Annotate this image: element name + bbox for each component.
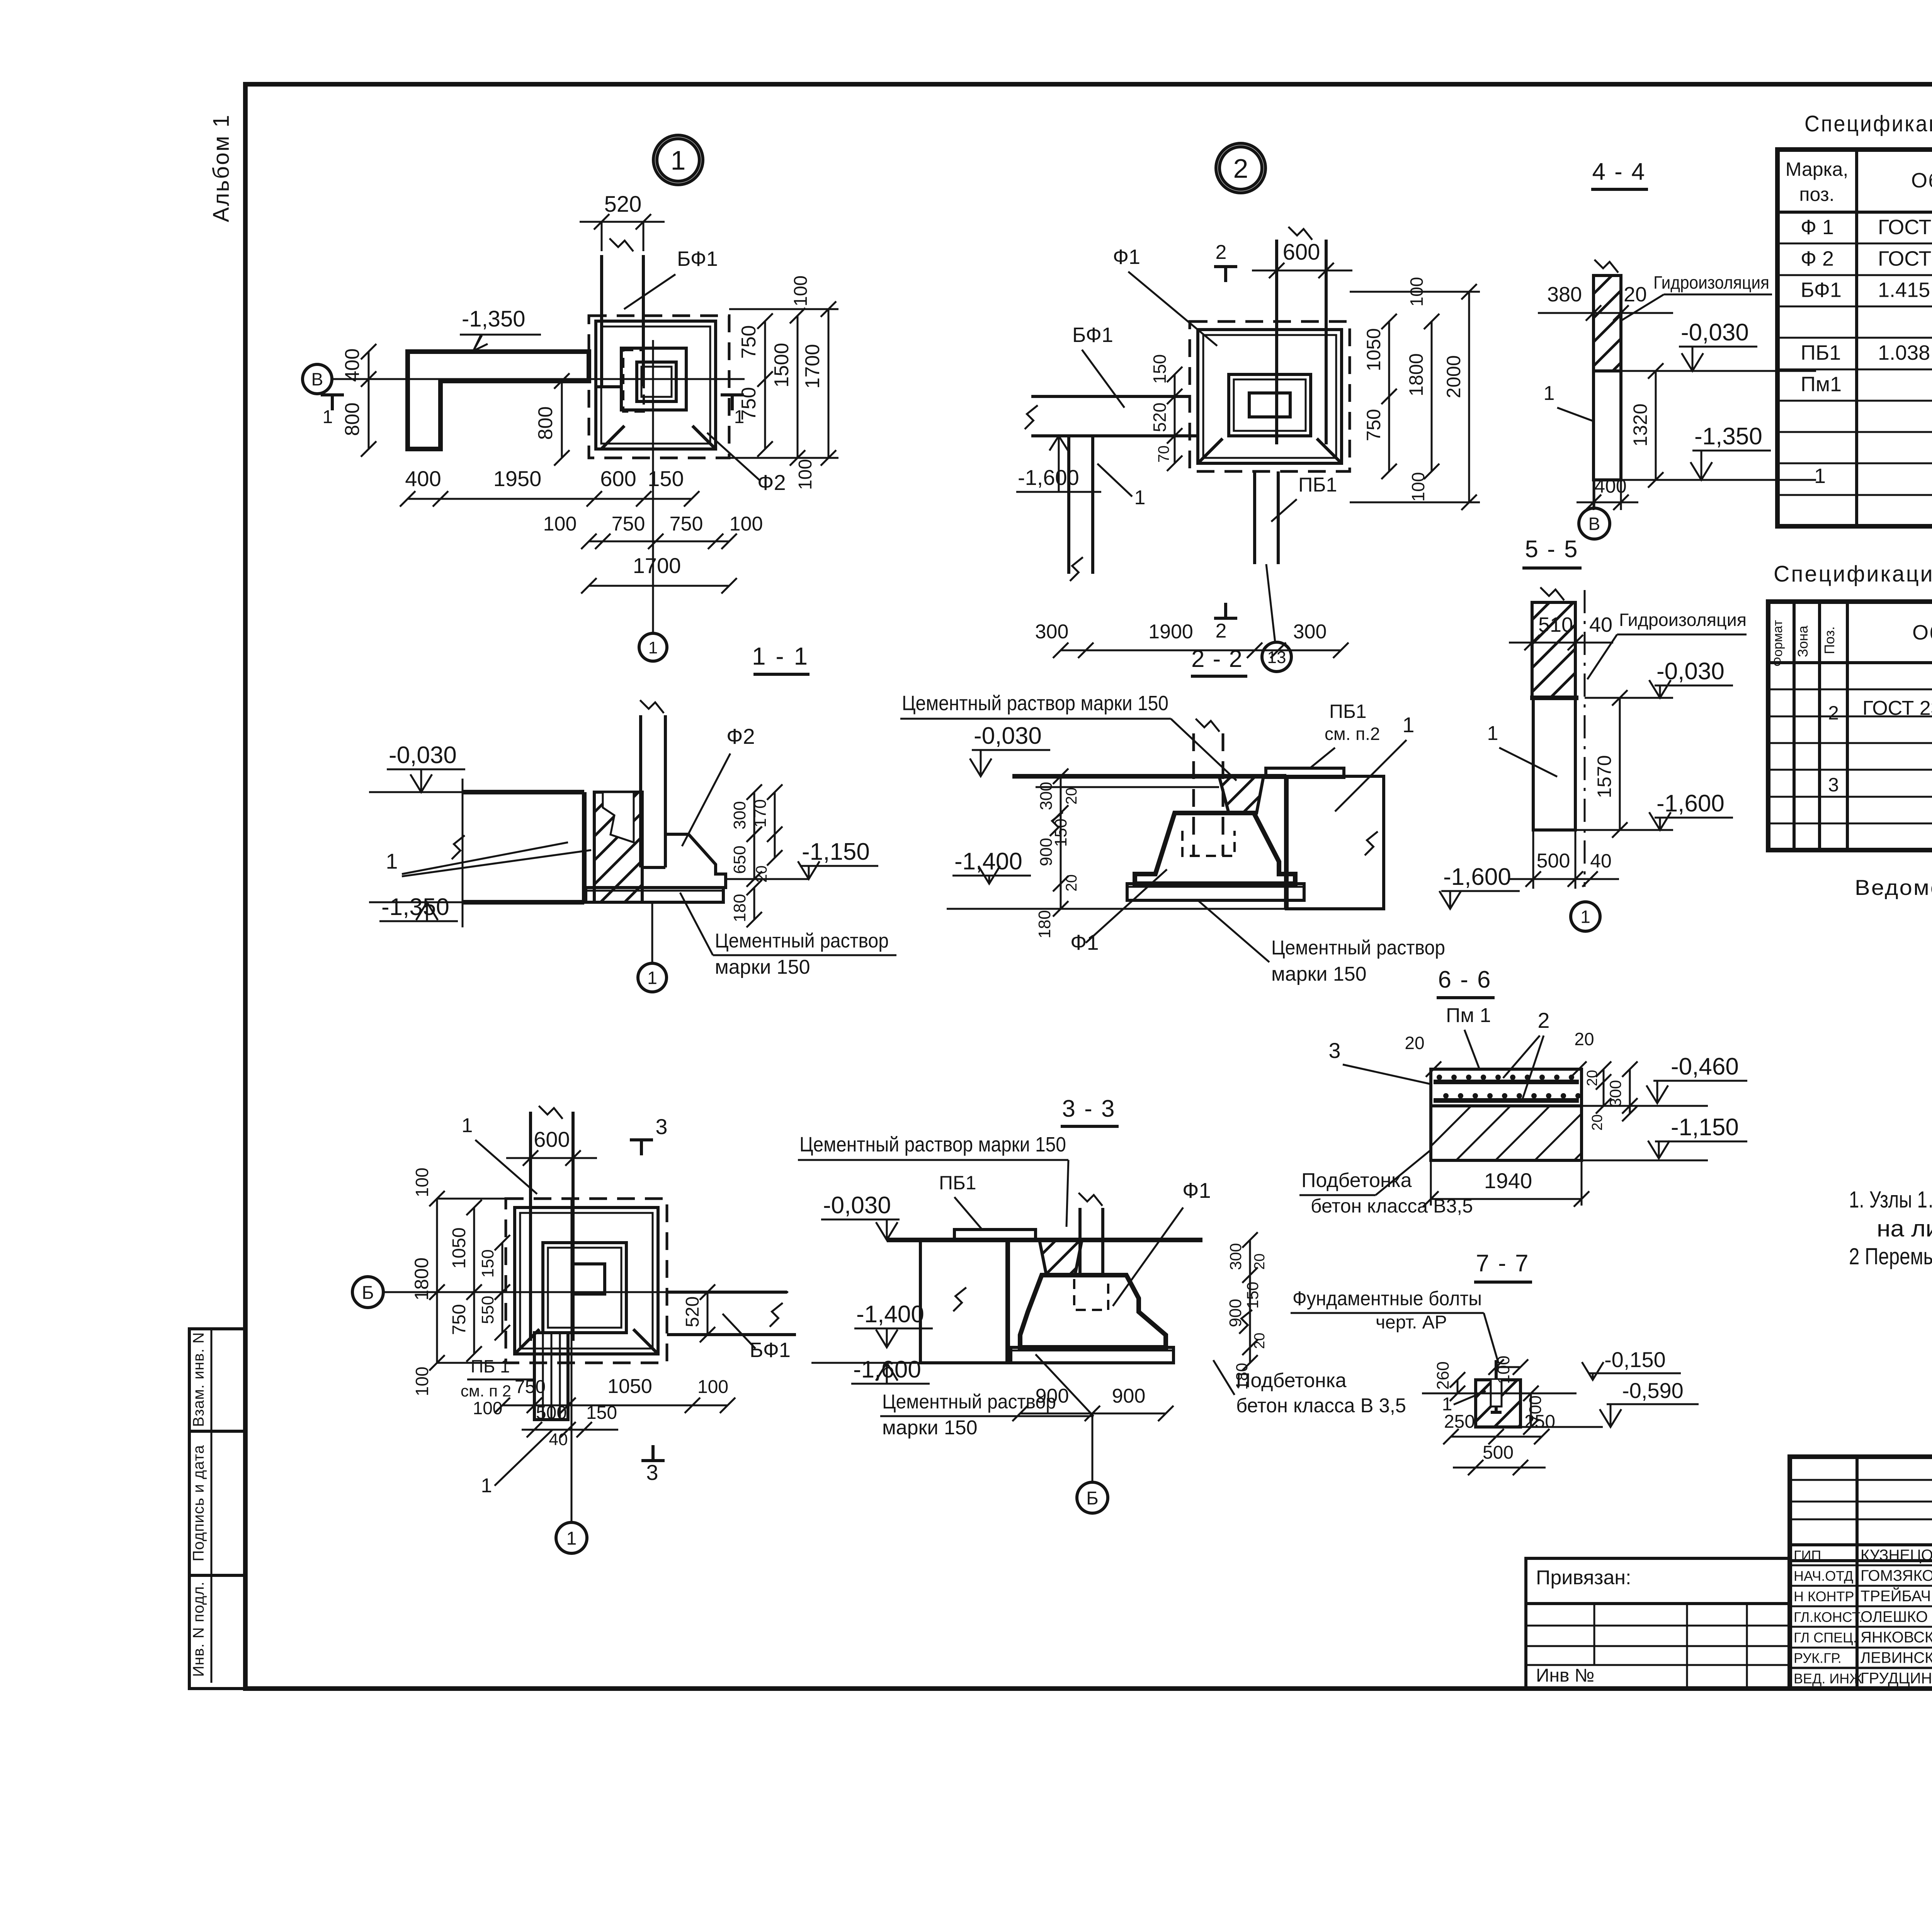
svg-text:150: 150 [1243, 1282, 1262, 1309]
svg-text:1700: 1700 [633, 553, 681, 578]
svg-text:ГОСТ 24022-80: ГОСТ 24022-80 [1878, 247, 1932, 270]
svg-text:1050: 1050 [449, 1228, 469, 1269]
svg-text:520: 520 [1150, 403, 1170, 432]
svg-text:300: 300 [1035, 621, 1069, 643]
svg-text:-0,460: -0,460 [1671, 1053, 1739, 1080]
svg-text:ГОСТ 24022-80: ГОСТ 24022-80 [1878, 216, 1932, 239]
svg-text:520: 520 [682, 1296, 703, 1327]
svg-text:100: 100 [697, 1377, 728, 1397]
svg-text:100: 100 [795, 459, 816, 490]
svg-text:1 - 1: 1 - 1 [752, 642, 809, 670]
svg-text:3: 3 [1828, 774, 1839, 796]
svg-text:3 - 3: 3 - 3 [1062, 1095, 1116, 1122]
svg-text:1800: 1800 [1405, 353, 1427, 396]
svg-text:900: 900 [1036, 1385, 1069, 1407]
svg-text:Пм 1: Пм 1 [1446, 1004, 1491, 1027]
svg-text:ПБ1: ПБ1 [1801, 341, 1841, 364]
svg-text:Спецификация элементов мон: Спецификация элементов монолитной плиты … [1774, 561, 1932, 587]
svg-text:РУК.ГР.: РУК.ГР. [1794, 1650, 1842, 1666]
svg-text:Цементный раствор: Цементный раствор [1271, 937, 1445, 959]
svg-text:750: 750 [515, 1377, 546, 1397]
svg-text:ПБ 1: ПБ 1 [471, 1356, 510, 1376]
svg-text:-0,030: -0,030 [974, 723, 1042, 749]
svg-text:550: 550 [478, 1296, 497, 1324]
svg-text:Цементный раствор: Цементный раствор [882, 1391, 1056, 1413]
svg-text:1. Узлы 1…3 и сечения 4-4 7: 1. Узлы 1…3 и сечения 4-4 7-7 замаркиров… [1849, 1187, 1932, 1213]
svg-text:3: 3 [646, 1460, 658, 1485]
svg-text:20: 20 [1624, 283, 1647, 306]
svg-text:ГЛ.КОНСТ.: ГЛ.КОНСТ. [1794, 1609, 1862, 1625]
svg-text:20: 20 [1252, 1333, 1268, 1349]
svg-text:поз.: поз. [1799, 184, 1834, 205]
svg-text:Ф 2: Ф 2 [1801, 247, 1834, 270]
svg-text:750: 750 [670, 513, 703, 535]
svg-text:5 - 5: 5 - 5 [1525, 536, 1578, 563]
svg-text:Обозначение: Обозначение [1912, 621, 1932, 644]
svg-text:В: В [311, 369, 323, 389]
svg-text:1: 1 [1487, 722, 1498, 745]
svg-text:1: 1 [1814, 464, 1826, 488]
svg-text:510: 510 [1538, 613, 1573, 636]
svg-text:100: 100 [791, 276, 811, 306]
svg-text:бетон класса В3,5: бетон класса В3,5 [1311, 1195, 1473, 1217]
svg-text:Ф 1: Ф 1 [1801, 216, 1834, 239]
svg-text:-1,350: -1,350 [462, 306, 525, 332]
svg-text:300: 300 [1226, 1243, 1245, 1270]
svg-text:40: 40 [1589, 613, 1612, 636]
svg-text:150: 150 [586, 1403, 617, 1423]
svg-text:1: 1 [648, 638, 658, 657]
svg-text:400: 400 [405, 466, 441, 491]
svg-text:2: 2 [1233, 153, 1248, 184]
svg-text:марки 150: марки 150 [1271, 963, 1367, 985]
svg-text:750: 750 [449, 1304, 469, 1335]
svg-text:260: 260 [1434, 1361, 1452, 1389]
svg-text:1: 1 [323, 407, 333, 427]
svg-text:1940: 1940 [1484, 1168, 1532, 1193]
svg-text:1800: 1800 [411, 1257, 432, 1300]
svg-text:1: 1 [1442, 1394, 1452, 1415]
svg-text:1320: 1320 [1629, 403, 1651, 446]
svg-text:800: 800 [534, 406, 557, 440]
svg-text:черт. АР: черт. АР [1376, 1312, 1447, 1333]
svg-text:ГРУДЦИНОВА: ГРУДЦИНОВА [1861, 1670, 1932, 1687]
svg-text:-1,400: -1,400 [954, 848, 1022, 875]
svg-text:В: В [1588, 514, 1600, 534]
svg-text:70: 70 [1155, 446, 1172, 463]
svg-text:Зона: Зона [1795, 625, 1811, 657]
svg-text:40: 40 [1590, 850, 1612, 872]
svg-text:1: 1 [462, 1114, 473, 1137]
svg-text:20: 20 [1405, 1033, 1424, 1053]
svg-text:520: 520 [604, 192, 642, 217]
svg-text:Б: Б [1086, 1488, 1099, 1509]
svg-text:4 - 4: 4 - 4 [1592, 158, 1646, 185]
svg-text:Пм1: Пм1 [1801, 373, 1842, 396]
svg-text:150: 150 [1150, 354, 1170, 384]
svg-text:ПБ1: ПБ1 [939, 1172, 976, 1194]
svg-text:180: 180 [1035, 910, 1054, 938]
svg-text:Н КОНТР: Н КОНТР [1794, 1588, 1854, 1604]
svg-text:Формат: Формат [1770, 620, 1785, 667]
svg-text:бетон класса В 3,5: бетон класса В 3,5 [1236, 1395, 1406, 1417]
svg-text:400: 400 [341, 349, 364, 382]
svg-text:Цементный раствор: Цементный раствор [715, 930, 889, 952]
svg-text:100: 100 [730, 513, 763, 535]
svg-text:250: 250 [1524, 1412, 1555, 1432]
svg-text:Гидроизоляция: Гидроизоляция [1653, 272, 1769, 293]
svg-text:НАЧ.ОТД: НАЧ.ОТД [1794, 1568, 1853, 1584]
svg-text:20: 20 [1589, 1114, 1605, 1131]
svg-text:1700: 1700 [801, 344, 824, 389]
svg-text:ЛЕВИНСКАЯ: ЛЕВИНСКАЯ [1861, 1650, 1932, 1667]
svg-text:БФ1: БФ1 [1801, 279, 1842, 302]
svg-text:-0,030: -0,030 [1656, 658, 1725, 685]
svg-text:ГОСТ 23279-85: ГОСТ 23279-85 [1862, 697, 1932, 719]
svg-text:-1,600: -1,600 [1656, 790, 1725, 817]
svg-text:20: 20 [1252, 1253, 1268, 1270]
svg-text:Привязан:: Привязан: [1536, 1566, 1631, 1589]
svg-text:20: 20 [1063, 787, 1080, 805]
svg-text:300: 300 [1606, 1080, 1624, 1107]
svg-text:1: 1 [647, 968, 657, 988]
svg-text:Цементный раствор марки 150: Цементный раствор марки 150 [799, 1133, 1066, 1156]
svg-text:100: 100 [473, 1398, 503, 1418]
svg-text:600: 600 [1283, 240, 1320, 265]
svg-text:Ф2: Ф2 [726, 724, 755, 748]
svg-text:180: 180 [730, 894, 749, 922]
svg-text:2000: 2000 [1443, 355, 1464, 398]
svg-text:Подпись и дата: Подпись и дата [190, 1445, 207, 1561]
svg-text:150: 150 [478, 1249, 497, 1277]
svg-text:Подбетонка: Подбетонка [1301, 1169, 1412, 1192]
svg-text:100: 100 [412, 1168, 432, 1197]
svg-text:-1,150: -1,150 [802, 838, 870, 865]
svg-text:20: 20 [1584, 1070, 1600, 1086]
svg-text:1950: 1950 [493, 466, 542, 491]
svg-text:900: 900 [1037, 838, 1056, 866]
svg-text:Обозначение: Обозначение [1911, 169, 1932, 192]
svg-text:Альбом 1: Альбом 1 [209, 114, 234, 222]
svg-text:1: 1 [671, 145, 686, 175]
svg-text:800: 800 [341, 403, 364, 436]
svg-text:1: 1 [566, 1528, 577, 1549]
svg-text:-1,400: -1,400 [856, 1301, 924, 1328]
svg-text:2: 2 [1216, 620, 1227, 642]
svg-text:БФ1: БФ1 [677, 247, 718, 270]
svg-text:1.415.1-2: 1.415.1-2 [1878, 279, 1932, 302]
svg-text:3: 3 [655, 1114, 667, 1139]
svg-text:750: 750 [612, 513, 645, 535]
svg-text:Марка,: Марка, [1786, 158, 1849, 180]
svg-text:1: 1 [1580, 907, 1590, 927]
svg-text:Гидроизоляция: Гидроизоляция [1619, 610, 1747, 630]
svg-text:Подбетонка: Подбетонка [1236, 1369, 1347, 1392]
svg-text:7 - 7: 7 - 7 [1476, 1250, 1529, 1277]
svg-text:-0,030: -0,030 [823, 1192, 891, 1219]
svg-text:1: 1 [1402, 713, 1414, 737]
svg-text:Инв. N подл.: Инв. N подл. [190, 1581, 207, 1677]
svg-text:ЯНКОВСКИЙ: ЯНКОВСКИЙ [1861, 1628, 1932, 1646]
svg-text:ГИП: ГИП [1794, 1548, 1821, 1563]
svg-text:-0,150: -0,150 [1604, 1347, 1666, 1372]
svg-text:2 - 2: 2 - 2 [1191, 646, 1243, 672]
svg-text:750: 750 [1363, 409, 1384, 441]
svg-text:170: 170 [751, 799, 770, 827]
svg-text:ОЛЕШКО: ОЛЕШКО [1861, 1608, 1928, 1625]
svg-text:300: 300 [1037, 782, 1056, 810]
svg-text:40: 40 [549, 1430, 568, 1449]
svg-text:100: 100 [543, 513, 577, 535]
svg-text:Поз.: Поз. [1821, 626, 1837, 654]
svg-text:900: 900 [1226, 1299, 1245, 1327]
svg-text:Инв №: Инв № [1536, 1665, 1594, 1686]
svg-text:Ф1: Ф1 [1182, 1178, 1211, 1202]
svg-text:2: 2 [1537, 1008, 1549, 1032]
svg-text:ПБ1: ПБ1 [1298, 474, 1337, 496]
svg-text:-0,030: -0,030 [389, 742, 457, 769]
svg-text:Фундаментные болты: Фундаментные болты [1293, 1287, 1482, 1310]
svg-text:-1,350: -1,350 [1694, 423, 1762, 450]
svg-text:500: 500 [1483, 1442, 1514, 1463]
svg-text:см. п 2: см. п 2 [461, 1382, 511, 1400]
svg-text:500: 500 [1537, 850, 1570, 872]
svg-text:20: 20 [1063, 874, 1080, 892]
svg-text:Б: Б [362, 1282, 374, 1303]
svg-text:180: 180 [1233, 1363, 1251, 1390]
svg-text:2 Перемычки уложить рабочей: 2 Перемычки уложить рабочей арматурой вв… [1849, 1243, 1932, 1269]
svg-text:1050: 1050 [1363, 328, 1384, 371]
svg-text:ВЕД. ИНЖ: ВЕД. ИНЖ [1794, 1671, 1862, 1687]
svg-text:750: 750 [738, 325, 760, 359]
svg-text:500: 500 [536, 1403, 567, 1423]
svg-text:380: 380 [1547, 283, 1582, 306]
svg-text:100: 100 [412, 1367, 432, 1396]
svg-text:600: 600 [600, 466, 636, 491]
svg-text:1: 1 [386, 849, 398, 873]
svg-text:1: 1 [1544, 382, 1555, 405]
svg-text:Ф1: Ф1 [1113, 245, 1140, 269]
svg-text:1570: 1570 [1594, 755, 1615, 798]
svg-text:1900: 1900 [1148, 621, 1193, 643]
svg-text:150: 150 [648, 466, 684, 491]
svg-text:650: 650 [730, 845, 749, 874]
svg-text:ПБ1: ПБ1 [1329, 701, 1367, 722]
svg-text:1050: 1050 [607, 1375, 652, 1398]
svg-text:ГЛ СПЕЦ.: ГЛ СПЕЦ. [1794, 1629, 1857, 1645]
svg-text:6 - 6: 6 - 6 [1438, 966, 1492, 993]
svg-text:Цементный раствор марки 150: Цементный раствор марки 150 [902, 692, 1168, 715]
svg-text:2: 2 [1216, 241, 1227, 264]
svg-text:ГОМЗЯКОВ: ГОМЗЯКОВ [1861, 1567, 1932, 1584]
svg-text:-1,350: -1,350 [381, 894, 449, 920]
svg-text:100: 100 [1408, 472, 1428, 502]
svg-text:-1,600: -1,600 [1018, 465, 1079, 490]
svg-text:300: 300 [1293, 621, 1327, 643]
svg-text:КУЗНЕЦОВ: КУЗНЕЦОВ [1861, 1547, 1932, 1564]
svg-text:БФ1: БФ1 [750, 1338, 791, 1362]
svg-text:-1,150: -1,150 [1671, 1114, 1739, 1141]
svg-text:Спецификация к схеме распол: Спецификация к схеме расположения элемен… [1804, 111, 1932, 136]
svg-text:2: 2 [1828, 702, 1839, 724]
svg-text:-1,600: -1,600 [1443, 864, 1511, 890]
svg-text:марки 150: марки 150 [882, 1417, 978, 1439]
svg-text:марки 150: марки 150 [715, 956, 810, 978]
svg-text:Ф2: Ф2 [757, 470, 786, 495]
svg-text:20: 20 [1574, 1029, 1594, 1049]
svg-text:3: 3 [1328, 1038, 1340, 1063]
svg-text:1: 1 [1134, 486, 1146, 509]
svg-text:1.038.1-1: 1.038.1-1 [1878, 341, 1932, 364]
svg-text:750: 750 [738, 387, 760, 421]
svg-text:ТРЕЙБАЧ: ТРЕЙБАЧ [1861, 1587, 1931, 1605]
svg-text:-0,030: -0,030 [1681, 319, 1749, 346]
svg-text:600: 600 [534, 1127, 570, 1151]
svg-text:БФ1: БФ1 [1072, 323, 1113, 347]
svg-text:-0,590: -0,590 [1622, 1378, 1684, 1403]
svg-text:см. п.2: см. п.2 [1325, 724, 1380, 744]
svg-text:на листе 4.: на листе 4. [1877, 1216, 1932, 1242]
svg-text:900: 900 [1112, 1385, 1146, 1407]
svg-text:Взам. инв. N: Взам. инв. N [190, 1332, 207, 1427]
svg-text:300: 300 [730, 801, 749, 829]
svg-text:1500: 1500 [770, 343, 793, 388]
svg-text:Ведомость расхода стали на: Ведомость расхода стали на элемент, кг [1855, 875, 1932, 900]
svg-text:1: 1 [481, 1475, 492, 1497]
